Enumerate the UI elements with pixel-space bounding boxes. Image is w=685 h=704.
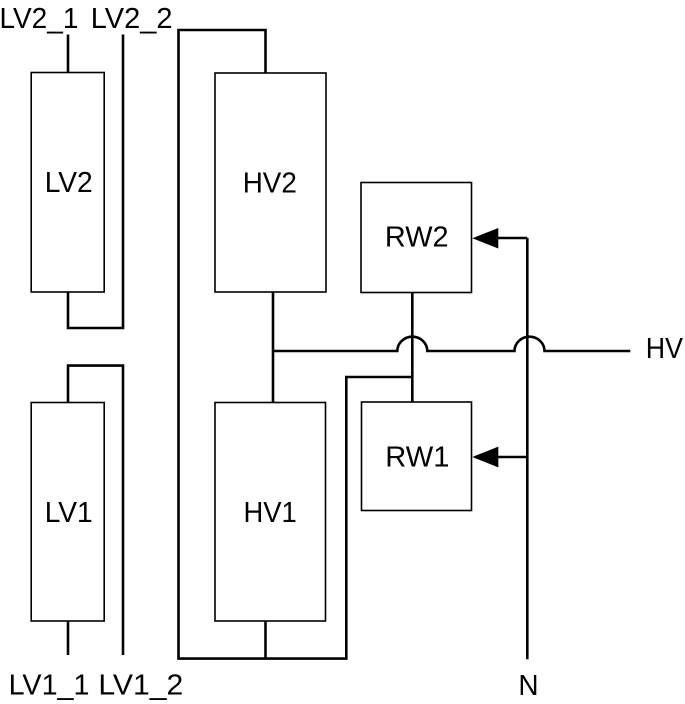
svg-text:LV2_2: LV2_2 [91,3,173,35]
svg-text:N: N [518,670,538,702]
svg-text:LV1_2: LV1_2 [98,669,183,701]
svg-text:HV2: HV2 [243,167,297,199]
svg-text:HV: HV [646,333,684,365]
svg-text:LV1: LV1 [45,497,93,529]
svg-text:LV2: LV2 [45,167,93,199]
svg-text:RW2: RW2 [385,222,449,254]
svg-text:HV1: HV1 [244,497,297,529]
svg-text:LV1_1: LV1_1 [9,669,90,701]
svg-text:LV2_1: LV2_1 [0,3,78,35]
svg-text:RW1: RW1 [385,442,449,474]
